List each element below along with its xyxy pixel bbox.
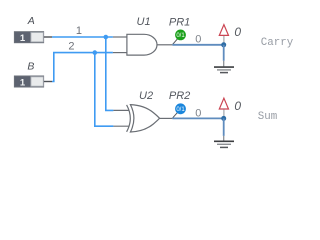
probe PR1 leader xyxy=(173,39,178,45)
wire net 2 : B to U1 pin2 xyxy=(52,53,113,82)
svg-text:PR2: PR2 xyxy=(169,90,190,102)
svg-text:2: 2 xyxy=(68,40,74,52)
svg-text:0: 0 xyxy=(234,25,241,39)
svg-text:PR1: PR1 xyxy=(169,16,190,28)
AND gate U1 body xyxy=(127,34,157,55)
junction A xyxy=(104,35,109,40)
svg-text:1: 1 xyxy=(76,25,82,37)
junction carry xyxy=(221,42,226,47)
svg-text:U1: U1 xyxy=(137,16,151,28)
switch B xyxy=(14,76,52,89)
wire carry : U1 out to ground column xyxy=(172,44,223,46)
probe PR2 leader xyxy=(173,112,178,118)
svg-text:0: 0 xyxy=(195,34,201,46)
svg-text:Sum: Sum xyxy=(258,111,277,123)
XOR gate U2 body xyxy=(130,105,159,132)
XOR gate U2 input arc xyxy=(127,105,131,132)
svg-text:1: 1 xyxy=(20,33,26,44)
wire to ground top xyxy=(223,45,225,61)
AND gate U1 pin stubs xyxy=(113,36,127,38)
XOR gate U2 pin stubs xyxy=(113,109,129,111)
svg-text:A: A xyxy=(27,15,35,27)
voltage probe top triangle xyxy=(219,25,228,36)
svg-text:0/1: 0/1 xyxy=(176,33,185,39)
wire net 2 branch : B to U2 pin2 xyxy=(95,53,114,127)
wire net 1 branch : A to U2 pin1 xyxy=(106,37,114,110)
junction B xyxy=(93,50,98,55)
probe PR1 xyxy=(175,30,186,41)
svg-text:U2: U2 xyxy=(139,90,153,102)
wire net 1 : A to U1 pin1 xyxy=(52,36,113,38)
ground top xyxy=(214,67,234,73)
wire sum : U2 out to ground column xyxy=(172,117,223,119)
svg-text:0: 0 xyxy=(234,99,241,113)
svg-text:B: B xyxy=(27,61,34,73)
junction sum xyxy=(221,116,226,121)
switch A xyxy=(14,32,52,45)
svg-text:0/1: 0/1 xyxy=(176,107,185,113)
voltage probe bottom triangle xyxy=(219,98,228,109)
probe PR2 xyxy=(175,103,186,114)
svg-text:1: 1 xyxy=(20,78,26,89)
svg-text:Carry: Carry xyxy=(261,37,294,49)
ground bottom xyxy=(214,141,234,147)
wire to ground bottom xyxy=(223,118,225,135)
